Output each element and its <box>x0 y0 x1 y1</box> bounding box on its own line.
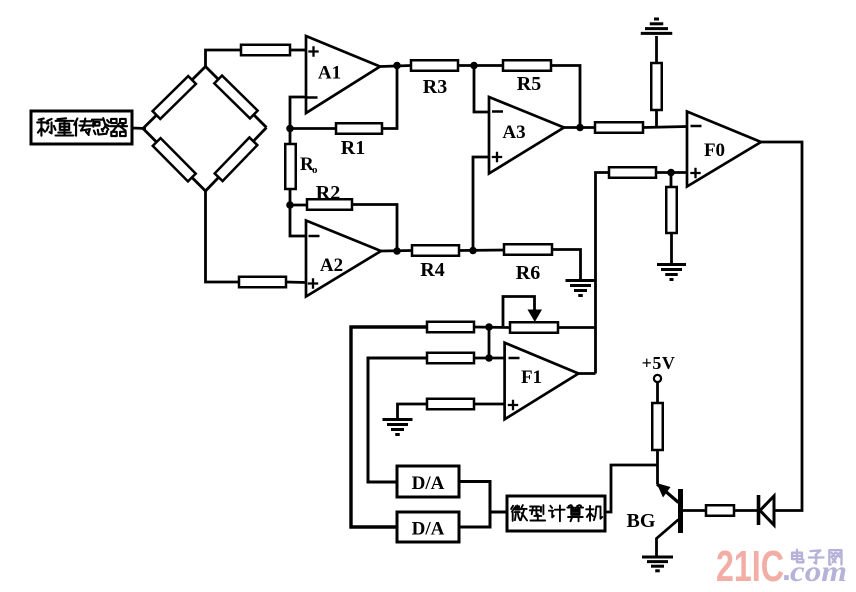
svg-text:R1: R1 <box>341 137 365 159</box>
svg-text:R5: R5 <box>517 73 541 95</box>
svg-text:A2: A2 <box>320 255 343 276</box>
svg-text:BG: BG <box>627 510 656 532</box>
svg-text:A3: A3 <box>502 122 525 143</box>
svg-text:R2: R2 <box>316 182 340 204</box>
svg-text:D/A: D/A <box>412 473 445 494</box>
svg-text:R4: R4 <box>420 259 444 281</box>
svg-text:R3: R3 <box>423 76 447 98</box>
svg-text:F1: F1 <box>521 367 542 388</box>
svg-text:A1: A1 <box>318 63 341 84</box>
svg-text:+5V: +5V <box>642 353 676 373</box>
svg-text:D/A: D/A <box>412 519 445 540</box>
svg-text:21IC: 21IC <box>716 542 784 591</box>
svg-text:o: o <box>312 164 318 176</box>
svg-text:F0: F0 <box>704 140 725 161</box>
svg-text:com: com <box>790 555 847 588</box>
svg-text:R6: R6 <box>516 262 540 284</box>
